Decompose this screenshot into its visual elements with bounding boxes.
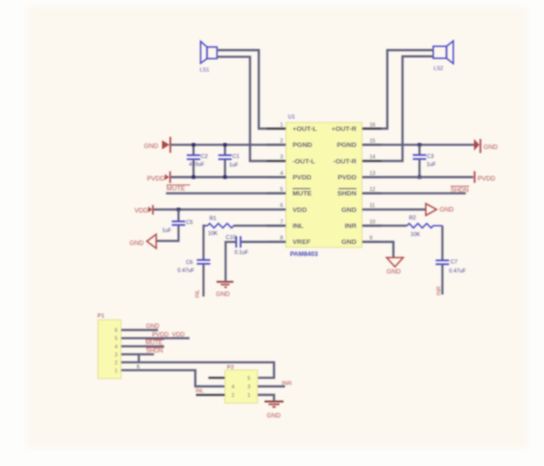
- svg-text:1uF: 1uF: [162, 228, 172, 234]
- ground GND (C10, earth bars): [216, 282, 233, 298]
- wire U1 pin 9 to GND arrow: [362, 242, 393, 257]
- svg-text:GND: GND: [146, 324, 160, 330]
- svg-text:INL: INL: [196, 389, 204, 395]
- svg-text:3: 3: [115, 352, 118, 358]
- svg-text:0.1uF: 0.1uF: [235, 250, 249, 256]
- wire U1 pin 15 to GND power port: [362, 144, 474, 146]
- svg-text:1uF: 1uF: [427, 162, 437, 168]
- svg-text:LS1: LS1: [200, 68, 210, 74]
- capacitor C6: [178, 260, 211, 274]
- svg-text:1uF: 1uF: [229, 162, 239, 168]
- svg-text:GND: GND: [216, 291, 230, 298]
- capacitor C3: [413, 145, 437, 177]
- junction VDD/C5: [177, 208, 181, 212]
- wire LS2 top terminal to U1 pin 16: [362, 50, 433, 129]
- wire P1 pin 2 to P2 top-right pin: [121, 362, 274, 378]
- svg-text:12: 12: [370, 187, 376, 193]
- svg-text:0.47uF: 0.47uF: [178, 268, 195, 274]
- svg-text:GND: GND: [341, 239, 356, 246]
- wire C10 left plate to earth ground: [226, 242, 237, 281]
- svg-text:C1: C1: [233, 154, 240, 160]
- svg-text:C6: C6: [186, 260, 193, 266]
- svg-text:2: 2: [115, 360, 118, 366]
- svg-text:GND: GND: [440, 207, 455, 214]
- wire PVDD rail to U1 pin 4: [171, 176, 286, 178]
- svg-text:GND: GND: [144, 143, 159, 150]
- svg-text:6: 6: [280, 203, 283, 209]
- svg-text:3: 3: [248, 385, 251, 391]
- svg-text:U1: U1: [288, 115, 295, 121]
- svg-text:R1: R1: [210, 216, 217, 222]
- svg-text:2: 2: [232, 393, 235, 399]
- svg-text:C7: C7: [451, 259, 458, 265]
- svg-text:R2: R2: [409, 215, 416, 221]
- junction pin15 wire / C3: [418, 143, 422, 147]
- svg-text:PVDD_VDD: PVDD_VDD: [152, 333, 185, 339]
- svg-text:INR: INR: [345, 223, 357, 230]
- svg-text:PVDD: PVDD: [293, 174, 312, 181]
- wire R1 left lead down to C6: [204, 226, 206, 260]
- svg-text:PVDD: PVDD: [147, 176, 165, 183]
- capacitor C5: [162, 210, 193, 234]
- stub P2 bottom-left pin (unconnected): [196, 394, 225, 396]
- svg-text:5: 5: [248, 376, 251, 382]
- junction C3/PVDD wire: [418, 175, 422, 179]
- net label SHDN (P1 pin 3): [146, 347, 164, 354]
- IC U1 left pin names: [293, 126, 317, 246]
- wire P2 bottom-right pin to earth ground: [258, 395, 275, 401]
- wire P1 pin 1 to P2 middle-left pin: [121, 370, 225, 386]
- connector P2 pin numbers: [232, 376, 251, 399]
- svg-text:10: 10: [370, 219, 376, 225]
- junction C2/PVDD rail: [192, 175, 196, 179]
- svg-text:11: 11: [370, 203, 375, 209]
- junction C2/GND rail: [192, 143, 196, 147]
- svg-text:PVDD: PVDD: [338, 174, 357, 181]
- svg-text:470uF: 470uF: [189, 162, 205, 168]
- svg-text:5: 5: [115, 336, 118, 342]
- net label MUTE (P1 pin 4): [146, 339, 165, 346]
- svg-text:PAM8403: PAM8403: [290, 251, 318, 258]
- svg-text:4: 4: [280, 171, 283, 177]
- wire R1 to U1 pin 7: [233, 225, 286, 227]
- IC U1 right pin stubs (pins 16-9): [362, 129, 382, 242]
- junction C1/PVDD rail: [223, 175, 227, 179]
- IC U1 right pin numbers 16-9: [370, 122, 376, 241]
- wire P1 pin 6 (GND): [121, 329, 158, 331]
- svg-text:+OUT-L: +OUT-L: [293, 126, 317, 133]
- svg-text:0.47uF: 0.47uF: [449, 268, 466, 274]
- svg-text:VDD: VDD: [135, 208, 149, 215]
- resistor R2: [407, 215, 443, 237]
- svg-text:INR: INR: [282, 381, 292, 387]
- pin 12 SHDN overline: [339, 188, 357, 190]
- svg-text:PGND: PGND: [293, 142, 313, 149]
- wire U1 pin 11 to GND arrow: [362, 208, 426, 210]
- net label SHDN (pin 12 wire): [451, 186, 470, 194]
- wire U1 pin 12 stub: [362, 192, 466, 194]
- ground GND (pin 11, open arrow right): [426, 204, 454, 216]
- connector P1 pin numbers: [115, 328, 118, 374]
- svg-text:3: 3: [280, 155, 283, 161]
- svg-text:GND: GND: [341, 207, 356, 214]
- net label MUTE (pin 5 wire): [167, 185, 191, 193]
- svg-text:SHDN: SHDN: [337, 191, 356, 198]
- power port GND left (pin 2 net): [144, 137, 170, 153]
- svg-text:C5: C5: [186, 220, 193, 226]
- svg-text:VDD: VDD: [293, 207, 307, 214]
- svg-text:15: 15: [370, 139, 376, 145]
- svg-text:+OUT-R: +OUT-R: [331, 126, 356, 133]
- svg-text:MUTE: MUTE: [167, 186, 186, 193]
- svg-text:C3: C3: [427, 154, 434, 160]
- speaker LS2: [433, 41, 453, 64]
- svg-text:GND: GND: [484, 144, 499, 151]
- svg-text:2: 2: [280, 139, 283, 145]
- ground GND (C5, open arrow left): [130, 234, 157, 248]
- svg-text:GND: GND: [387, 269, 402, 276]
- wire C10 right plate to U1 pin 8: [241, 241, 286, 243]
- pin 5 MUTE overline: [293, 188, 311, 190]
- svg-text:9: 9: [370, 236, 373, 242]
- power port GND right (pin 15 net): [474, 139, 498, 153]
- wire P2 middle-right stub (INR): [258, 385, 286, 387]
- svg-text:SHDN: SHDN: [451, 187, 469, 194]
- wire P1 pin 5 (PVDD_VDD): [121, 337, 190, 339]
- wire LS2 bottom terminal to U1 pin 14: [362, 56, 433, 161]
- wire LS1 top terminal to U1 pin 1: [217, 50, 286, 129]
- svg-text:INL: INL: [195, 290, 201, 298]
- svg-text:SHDN: SHDN: [146, 349, 163, 355]
- capacitor C10: [226, 235, 249, 256]
- capacitor C1: [218, 145, 239, 177]
- wire U1 pin 10 to R2: [362, 225, 407, 227]
- wire C7 down to INR port: [441, 264, 443, 294]
- svg-text:INR: INR: [437, 286, 443, 295]
- junction C1/GND rail: [223, 143, 227, 147]
- svg-text:GND: GND: [130, 240, 145, 247]
- stub P2 top-left pin (unconnected): [208, 377, 225, 379]
- capacitor C7: [436, 259, 467, 274]
- power port PVDD left (pin 4 net): [147, 171, 170, 183]
- svg-text:6: 6: [115, 328, 118, 334]
- svg-text:1: 1: [115, 368, 118, 374]
- svg-text:P1: P1: [98, 314, 105, 320]
- capacitor C2: [187, 145, 208, 177]
- svg-text:C2: C2: [201, 154, 208, 160]
- wire R2 right lead down to C7: [441, 226, 443, 260]
- svg-text:LS2: LS2: [434, 66, 444, 72]
- svg-text:INL: INL: [293, 223, 304, 230]
- connector P1 body: [98, 320, 121, 379]
- wire C5 to GND arrow: [156, 225, 178, 241]
- svg-text:MUTE: MUTE: [293, 191, 313, 198]
- svg-text:P2: P2: [227, 365, 234, 371]
- svg-text:MUTE: MUTE: [146, 341, 163, 347]
- svg-text:PGND: PGND: [337, 142, 357, 149]
- ground GND (pin 9, open arrow down): [387, 258, 404, 276]
- svg-text:10K: 10K: [208, 231, 218, 237]
- svg-text:10K: 10K: [411, 232, 421, 238]
- svg-text:PVDD: PVDD: [478, 176, 496, 183]
- IC U1 right pin names: [331, 126, 356, 246]
- svg-text:13: 13: [370, 171, 376, 177]
- speaker LS1: [201, 41, 217, 63]
- IC U1 left pin stubs (pins 1-8): [267, 129, 287, 242]
- svg-text:1: 1: [280, 122, 283, 128]
- svg-text:C10: C10: [226, 235, 236, 241]
- svg-text:14: 14: [370, 155, 376, 161]
- wire GND rail to U1 pin 2: [171, 144, 286, 146]
- svg-text:1: 1: [248, 393, 251, 399]
- IC U1 left pin numbers 1-8: [280, 122, 283, 241]
- svg-text:-OUT-L: -OUT-L: [293, 158, 316, 165]
- wire C6 down to INL port: [202, 264, 204, 297]
- svg-text:GND: GND: [267, 412, 281, 419]
- power port VDD left (pin 6 net): [135, 205, 153, 215]
- svg-text:4: 4: [232, 385, 235, 391]
- svg-text:4: 4: [115, 344, 118, 350]
- power port PVDD right (pin 13 net): [475, 171, 496, 183]
- wire U1 pin 13 to PVDD power port: [362, 176, 473, 178]
- connector P2 body: [225, 370, 258, 403]
- wire LS1 bottom terminal to U1 pin 3: [217, 57, 286, 161]
- svg-text:VREF: VREF: [293, 239, 311, 246]
- ground GND (P2, earth bars): [265, 402, 284, 420]
- svg-text:16: 16: [370, 122, 376, 128]
- wire P1 pin 3 (SHDN): [121, 353, 154, 355]
- svg-text:7: 7: [280, 219, 283, 225]
- wire VDD rail to U1 pin 6: [154, 208, 286, 210]
- svg-text:-OUT-R: -OUT-R: [333, 158, 356, 165]
- svg-text:8: 8: [280, 236, 283, 242]
- IC U1 body: [286, 123, 362, 248]
- wire P1 pin 4 (MUTE): [121, 345, 164, 347]
- svg-text:5: 5: [280, 187, 283, 193]
- wire jumper P1 pin3 to pin2: [138, 354, 140, 362]
- wire MUTE to U1 pin 5: [166, 192, 286, 194]
- resistor R1: [206, 216, 234, 237]
